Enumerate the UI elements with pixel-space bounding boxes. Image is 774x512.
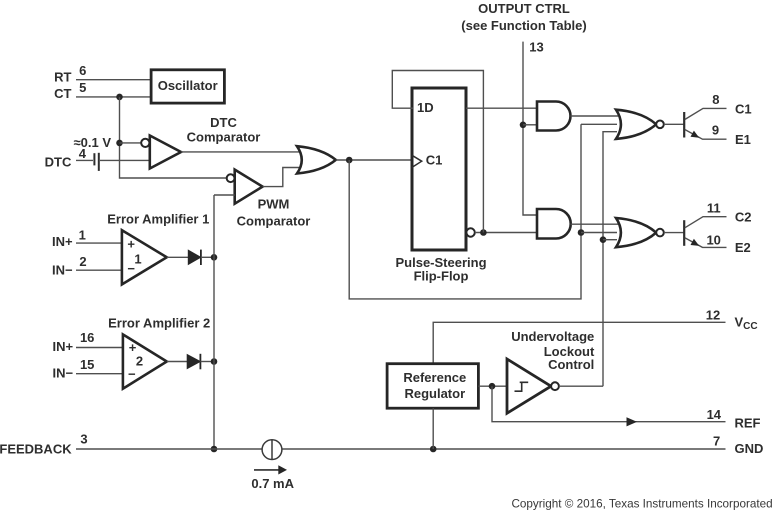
- wire feedback loop Qbar to D input: [392, 71, 483, 233]
- svg-text:IN+: IN+: [52, 234, 73, 249]
- comparator U-PWM body: [235, 170, 263, 204]
- diode D2: [187, 355, 199, 368]
- svg-text:12: 12: [706, 307, 720, 322]
- wire pin13 vertical: [523, 42, 538, 215]
- junction OR output node: [346, 157, 353, 164]
- junction REG ground: [430, 446, 437, 453]
- svg-text:RT: RT: [54, 70, 71, 85]
- nor-gate U-NOR2 bubble: [656, 229, 664, 237]
- svg-text:GND: GND: [735, 441, 764, 456]
- junction UVLO to NOR2: [600, 236, 607, 243]
- flip-flop clock triangle: [412, 155, 422, 167]
- svg-text:10: 10: [706, 232, 720, 247]
- wire FEEDBACK to GND rail: [76, 448, 726, 450]
- arrow I1 direction: [254, 469, 279, 471]
- svg-text:3: 3: [80, 431, 87, 446]
- svg-text:Oscillator: Oscillator: [158, 78, 218, 93]
- svg-text:1: 1: [134, 251, 141, 266]
- junction CT node: [116, 94, 123, 101]
- transistor Q2 emitter: [685, 238, 727, 248]
- wire REG output to REF pin: [492, 386, 726, 422]
- wire PWM signal to NOR1 middle input: [581, 123, 617, 125]
- junction REG output node: [489, 383, 496, 390]
- wire OR output down and across to NOR column: [349, 124, 581, 299]
- diode D1: [189, 251, 201, 264]
- wire PWM output to OR gate: [263, 168, 300, 187]
- or-gate U-OR body: [297, 146, 336, 173]
- svg-text:Regulator: Regulator: [404, 386, 465, 401]
- svg-text:2: 2: [136, 353, 143, 368]
- svg-text:DTC: DTC: [45, 155, 72, 170]
- svg-text:+: +: [127, 237, 135, 252]
- junction D2 to bus: [211, 358, 218, 365]
- svg-text:9: 9: [712, 123, 719, 138]
- svg-text:−: −: [128, 366, 136, 381]
- svg-text:Reference: Reference: [403, 370, 466, 385]
- svg-text:Error Amplifier 1: Error Amplifier 1: [107, 212, 209, 227]
- nor-gate U-NOR1 bubble: [656, 121, 664, 129]
- current source I1: [262, 440, 282, 460]
- wire PWM signal to NOR2 middle input: [581, 232, 617, 234]
- battery offset 0.1V left plate: [93, 153, 95, 165]
- wire diode D1 to feedback bus: [201, 256, 214, 258]
- transistor Q1 collector: [685, 108, 727, 119]
- wire RT to oscillator: [76, 79, 151, 81]
- svg-text:REF: REF: [735, 415, 761, 430]
- oscillator box U-OSC: [151, 70, 224, 103]
- wire Q output to AND1: [466, 107, 538, 109]
- wire EA1 output to diode D1: [167, 256, 189, 258]
- wire UVLO to NOR2 bottom input: [603, 239, 617, 241]
- svg-text:DTC: DTC: [210, 115, 237, 130]
- transistor Q2 emitter arrow: [691, 239, 700, 246]
- flip-flop Qbar bubble: [466, 228, 474, 236]
- op-amp U-EA1 body: [122, 230, 167, 284]
- svg-text:14: 14: [707, 407, 722, 422]
- wire VCC rail: [433, 322, 725, 364]
- wire CT line to PWM bubble: [226, 177, 228, 179]
- svg-text:16: 16: [80, 330, 94, 345]
- wire DTC pin to battery: [76, 159, 93, 161]
- buffer U-UVLO bubble: [551, 382, 559, 390]
- svg-text:Undervoltage: Undervoltage: [511, 329, 594, 344]
- op-amp U-EA2 body: [123, 334, 167, 388]
- wire battery to DTC comparator lower input: [100, 159, 150, 161]
- wire IN- to EA1: [76, 269, 122, 271]
- buffer U-UVLO hysteresis symbol: [515, 382, 529, 391]
- svg-text:1D: 1D: [417, 100, 434, 115]
- svg-text:11: 11: [707, 201, 721, 216]
- and-gate U-AND1 body: [537, 102, 571, 131]
- junction PWM signal to NOR2: [578, 229, 585, 236]
- arrow REF direction: [627, 417, 638, 426]
- comparator U-DTC input bubble: [141, 139, 149, 147]
- transistor Q1 emitter arrow: [691, 131, 700, 138]
- svg-text:−: −: [127, 261, 135, 276]
- svg-text:5: 5: [79, 80, 86, 95]
- junction bus to feedback line: [211, 446, 218, 453]
- wire feedback bus to PWM lower input: [214, 194, 235, 196]
- transistor Q1 base bar: [683, 112, 685, 138]
- svg-text:Control: Control: [548, 357, 594, 372]
- svg-text:OUTPUT CTRL: OUTPUT CTRL: [478, 1, 570, 16]
- svg-text:Error Amplifier 2: Error Amplifier 2: [108, 316, 210, 331]
- svg-text:Comparator: Comparator: [237, 214, 311, 229]
- wire diode D2 to feedback bus: [200, 361, 214, 363]
- nor-gate U-NOR1 body: [616, 110, 656, 139]
- wire feedback bus vertical: [213, 195, 215, 449]
- junction Qbar to feedback loop: [480, 229, 487, 236]
- wire IN- to EA2: [76, 373, 123, 375]
- transistor Q2 collector: [685, 217, 727, 228]
- svg-text:E2: E2: [735, 240, 751, 255]
- junction CT to DTC comparator: [116, 140, 123, 147]
- svg-text:2: 2: [79, 254, 86, 269]
- svg-text:CT: CT: [54, 86, 71, 101]
- wire NOR2 output to Q2 base: [664, 232, 684, 234]
- svg-text:FEEDBACK: FEEDBACK: [0, 442, 72, 457]
- comparator U-DTC body: [150, 136, 181, 169]
- flip-flop U-FF box: [412, 88, 466, 250]
- svg-text:(see Function Table): (see Function Table): [461, 18, 586, 33]
- transistor Q1 emitter: [685, 130, 727, 140]
- nor-gate U-NOR2 body: [616, 218, 656, 247]
- svg-text:C1: C1: [735, 102, 752, 117]
- wire REG output to UVLO input: [478, 385, 507, 387]
- wire AND2 output to NOR2 top input: [571, 223, 619, 225]
- svg-text:1: 1: [79, 228, 86, 243]
- transistor Q2 base bar: [683, 220, 685, 246]
- wire NOR1 output to Q1 base: [664, 123, 684, 125]
- svg-text:PWM: PWM: [258, 197, 290, 212]
- comparator U-PWM input bubble: [227, 174, 235, 182]
- svg-text:IN−: IN−: [53, 366, 74, 381]
- wire IN+ to EA1: [76, 242, 122, 244]
- wire OR output to flip-flop clock: [336, 159, 413, 161]
- wire pin13 to AND1 lower input: [523, 124, 538, 126]
- svg-text:E1: E1: [735, 132, 751, 147]
- svg-text:13: 13: [529, 39, 543, 54]
- regulator U-REG box: [387, 364, 478, 409]
- wire IN+ to EA2: [76, 347, 123, 349]
- buffer U-UVLO body: [507, 359, 551, 413]
- wire Qbar to AND2 lower input: [475, 232, 538, 234]
- svg-text:0.7 mA: 0.7 mA: [251, 476, 294, 491]
- wire UVLO output to NOR column: [559, 385, 603, 387]
- wire AND1 output to NOR1 top input: [571, 115, 619, 117]
- svg-text:6: 6: [79, 63, 86, 78]
- svg-text:Comparator: Comparator: [187, 129, 261, 144]
- junction pin13 to AND1: [520, 122, 527, 129]
- wire DTC comparator output to OR gate: [181, 151, 300, 153]
- svg-text:C1: C1: [426, 153, 443, 168]
- and-gate U-AND2 body: [537, 209, 571, 239]
- wire UVLO signal vertical: [603, 132, 617, 387]
- wire CT to oscillator: [76, 96, 151, 98]
- svg-text:IN−: IN−: [52, 262, 73, 277]
- junction D1 to bus: [211, 254, 218, 261]
- svg-text:C2: C2: [735, 209, 752, 224]
- wire CT node to DTC bubble: [120, 142, 142, 144]
- svg-text:IN+: IN+: [53, 339, 74, 354]
- svg-text:Flip-Flop: Flip-Flop: [414, 269, 469, 284]
- wire EA2 output to diode D2: [167, 361, 188, 363]
- svg-text:Copyright © 2016, Texas Instru: Copyright © 2016, Texas Instruments Inco…: [511, 497, 772, 510]
- svg-text:7: 7: [713, 434, 720, 449]
- wire CT vertical down: [120, 97, 227, 178]
- svg-text:15: 15: [80, 357, 94, 372]
- svg-text:8: 8: [712, 92, 719, 107]
- battery offset 0.1V right plate: [98, 153, 100, 171]
- svg-text:4: 4: [79, 146, 87, 161]
- wire REG bottom to ground: [432, 408, 434, 449]
